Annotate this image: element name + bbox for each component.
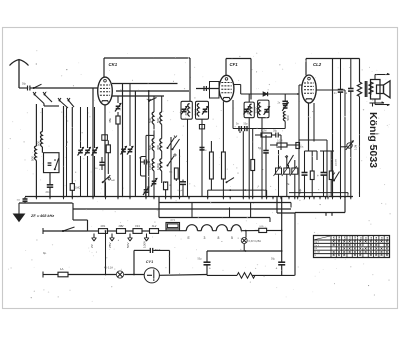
- wire switch link: [44, 101, 60, 107]
- wire route v7: [344, 197, 346, 213]
- filter bottom wire: [207, 274, 295, 276]
- capacitor 5n row2: [236, 123, 241, 132]
- wire y140 link: [299, 140, 327, 142]
- capacitor 2n out: [334, 59, 343, 198]
- svg-text:Ik mA: Ik mA: [315, 251, 321, 254]
- det can loop: [258, 100, 269, 118]
- svg-text:500: 500: [286, 115, 290, 120]
- IF2 can loop: [244, 102, 254, 118]
- svg-text:+: +: [317, 174, 319, 178]
- wire CY1 to filter: [159, 274, 207, 277]
- svg-text:ZF = 468 kHz: ZF = 468 kHz: [30, 214, 54, 218]
- trimmer IF1: [151, 178, 157, 196]
- wire lamp to CY1: [124, 274, 144, 276]
- svg-text:50µ: 50µ: [298, 189, 302, 194]
- svg-text:Ug V: Ug V: [315, 241, 320, 243]
- svg-text:U95: U95: [260, 226, 265, 228]
- wire L1 to bus: [35, 161, 37, 197]
- svg-text:50µ: 50µ: [258, 147, 263, 150]
- wire sw drop x179: [179, 149, 181, 196]
- fuse 1A: [58, 267, 68, 277]
- band switch S1a: [33, 92, 52, 104]
- wire to coil L1: [35, 104, 37, 146]
- wire CL2 pin a: [308, 103, 310, 151]
- wire S1b drop: [63, 106, 65, 197]
- wire route v8: [294, 213, 296, 275]
- osc trimmer 2: [202, 106, 208, 114]
- wire drop x148: [148, 91, 150, 197]
- IF2 trimmer: [244, 106, 250, 114]
- wire CL2 top: [306, 59, 360, 76]
- wire loop to winding: [198, 230, 202, 232]
- wire into CF1 grid: [196, 88, 219, 90]
- osc can loop 1: [181, 101, 192, 119]
- IF1 coil a1 500: [148, 112, 154, 124]
- wire L2 top: [42, 102, 52, 132]
- svg-text:300: 300: [156, 145, 160, 150]
- svg-text:CB2: CB2: [119, 225, 124, 228]
- wire route v3: [250, 203, 252, 218]
- label CY1: [146, 260, 153, 264]
- wire C-ant to band switch: [30, 84, 42, 89]
- svg-text:0,2M: 0,2M: [277, 140, 282, 143]
- wire det bottom: [261, 118, 263, 197]
- resistor 45k: [108, 116, 120, 124]
- svg-text:4V 0,1A: 4V 0,1A: [104, 267, 113, 270]
- coil L2 500: [37, 132, 43, 148]
- ground bus wire: [19, 202, 73, 204]
- resistor det: [164, 182, 172, 197]
- bus wire (chassis): [25, 196, 353, 199]
- wire CY1 loop top b: [153, 250, 169, 273]
- wire winding to VDR: [241, 230, 258, 232]
- wire x171: [170, 137, 172, 197]
- svg-text:6,3V 0,25A: 6,3V 0,25A: [249, 240, 262, 243]
- trimmer capacitor T2: [85, 107, 91, 197]
- det coil 2000: [255, 103, 261, 115]
- wire CL2 pin b: [313, 103, 315, 140]
- diode D1: [263, 92, 299, 96]
- svg-text:+: +: [276, 267, 278, 271]
- svg-text:50µ: 50µ: [198, 258, 203, 261]
- svg-text:CL2: CL2: [152, 225, 157, 228]
- capacitor C-ant 50p: [22, 83, 30, 91]
- speaker lead top: [375, 73, 390, 79]
- svg-text:10n: 10n: [17, 200, 21, 202]
- tube CK1: [98, 77, 113, 105]
- wire route h5: [295, 213, 345, 216]
- trimmer capacitor T3: [92, 107, 98, 197]
- svg-text:500: 500: [148, 145, 152, 150]
- label min max: [331, 158, 338, 166]
- wire grid CK1: [36, 87, 98, 89]
- wire x332: [332, 59, 334, 198]
- osc can loop 2: [196, 101, 209, 119]
- capacitor 50p out: [345, 59, 354, 198]
- electrolytic 50uF b: [317, 151, 327, 197]
- svg-text:50: 50: [205, 150, 208, 152]
- svg-text:SA1: SA1: [111, 179, 116, 182]
- wire IF2 top: [248, 94, 250, 102]
- trimmer x123: [121, 146, 127, 154]
- wire route h4: [159, 217, 270, 219]
- wire route h3: [277, 212, 295, 214]
- wire L2 bottom: [41, 147, 43, 153]
- capacitor 50n CY1: [150, 248, 161, 253]
- wire Ta drop: [288, 165, 290, 168]
- resistor 0.2M v: [270, 140, 299, 148]
- ballast CY1 box: [166, 220, 180, 231]
- wire y135 to x281: [280, 135, 282, 150]
- coil L1 500: [31, 146, 37, 161]
- svg-text:5k: 5k: [345, 92, 348, 95]
- wire band unit to C 20n: [49, 173, 51, 185]
- svg-text:6µ·: 6µ·: [43, 251, 47, 255]
- filter cap left 50uF: [198, 251, 212, 275]
- label CL2: [313, 62, 322, 67]
- svg-text:Ua V: Ua V: [315, 245, 320, 247]
- switch contacts IF1: [167, 136, 180, 151]
- wire diode feed: [241, 85, 263, 95]
- wire CK1 lower pin: [104, 105, 106, 197]
- wire CY1 loop top: [134, 249, 150, 251]
- speaker frame: [371, 80, 384, 100]
- wire CK1 right y96: [112, 95, 164, 97]
- svg-text:3: 3: [204, 236, 206, 240]
- switch above IF1: [148, 96, 157, 106]
- electrolytic 50uF a: [298, 151, 308, 197]
- capacitor 20nF: [46, 185, 54, 194]
- loop left of IF1: [141, 157, 147, 187]
- ground symbol: [14, 203, 25, 222]
- capacitor 2n det: [278, 94, 289, 105]
- tube data table: [314, 235, 390, 258]
- label 6V: [43, 251, 47, 255]
- wire x345: [344, 90, 346, 197]
- svg-text:30µ: 30µ: [273, 130, 278, 133]
- svg-text:5n: 5n: [236, 123, 239, 126]
- shield box CF1: [210, 82, 220, 99]
- test arrow 1: [90, 234, 96, 249]
- mains terminal upper: [42, 228, 44, 234]
- resistor cathode CK1: [102, 135, 108, 141]
- wire route v6: [290, 203, 292, 208]
- wire y130 row: [233, 128, 285, 130]
- resistor Rb: [222, 102, 226, 197]
- wire fuse to lamp: [68, 274, 116, 276]
- svg-text:50p: 50p: [22, 83, 27, 86]
- switch Ta: [285, 155, 294, 186]
- svg-text:50: 50: [95, 168, 98, 170]
- svg-text:S: S: [315, 255, 317, 257]
- wire heater drop: [105, 230, 107, 274]
- wire route v4: [269, 218, 271, 223]
- resistor osc2: [199, 125, 204, 129]
- heater chain resistors: [88, 225, 159, 234]
- resistor 60k: [296, 143, 305, 149]
- wire CL2 right y90: [316, 89, 345, 91]
- wire S1b drop 2: [66, 108, 68, 197]
- fuse loop: [186, 225, 197, 240]
- wire IF2 bottom: [248, 118, 250, 197]
- resistor 0.2M h: [261, 130, 272, 138]
- wire det top: [261, 94, 263, 100]
- resistor 50k: [169, 168, 178, 179]
- wire 5n drop: [145, 165, 147, 198]
- svg-text:45k: 45k: [108, 118, 112, 123]
- svg-text:mit.15V: mit.15V: [334, 158, 337, 166]
- svg-text:+: +: [298, 174, 300, 178]
- wave band unit box: [44, 153, 60, 173]
- wire y91: [116, 90, 189, 92]
- switch Ta2: [226, 178, 235, 191]
- svg-text:0,1M: 0,1M: [356, 145, 358, 150]
- scan speckle: [8, 50, 391, 302]
- svg-text:CK1: CK1: [109, 62, 118, 67]
- svg-text:E: E: [188, 236, 191, 240]
- svg-text:25V: 25V: [108, 242, 112, 248]
- label 1M: [75, 186, 81, 190]
- wire route v-left: [158, 197, 160, 218]
- capacitor 50p row2: [244, 123, 249, 132]
- svg-text:0,1µF: 0,1µF: [178, 190, 184, 192]
- svg-text:CF1: CF1: [135, 225, 140, 228]
- wire y146 link: [341, 146, 347, 148]
- svg-text:500: 500: [148, 118, 152, 123]
- resistor right b: [329, 151, 333, 197]
- svg-text:100V: 100V: [142, 240, 146, 248]
- capacitor osc2: [200, 148, 208, 153]
- AVC return wire: [208, 189, 267, 196]
- smoothing resistor: [237, 273, 255, 279]
- switch SA1: [102, 175, 116, 196]
- IF1 coil a3 1000: [148, 159, 154, 171]
- test arrow 4: [142, 234, 148, 249]
- capacitor 5n: [139, 157, 150, 165]
- switch contacts IF1 lower: [167, 154, 177, 167]
- wire to fuse loop: [159, 230, 187, 232]
- capacitor 10n to ground: [17, 197, 28, 203]
- IF2 coil 2000: [246, 104, 252, 116]
- svg-text:2n: 2n: [278, 102, 281, 105]
- wire 1M to bus: [71, 190, 73, 196]
- wire CK1 cathode: [92, 88, 94, 197]
- loop1 top: [305, 151, 318, 160]
- loop2 top: [320, 150, 334, 152]
- osc coil 1: [184, 104, 190, 117]
- IF1 line b: [161, 96, 163, 183]
- svg-text:CY1: CY1: [170, 220, 175, 222]
- wire osc2 down: [201, 119, 203, 196]
- potentiometer feedback: [346, 141, 358, 150]
- capacitor 50u mid: [258, 135, 269, 197]
- wire CY1 loop left: [133, 250, 135, 274]
- wire CK1 right y83: [112, 83, 178, 85]
- wire antenna to C-ant: [19, 87, 27, 89]
- wire route v1: [191, 203, 193, 218]
- wire route h2: [73, 208, 292, 210]
- trimmer at bus left: [143, 186, 149, 197]
- speaker lead bottom: [375, 99, 390, 106]
- det chain coil 500: [283, 111, 290, 121]
- trimmer x130: [127, 84, 133, 198]
- det chain trimmer: [282, 102, 288, 110]
- svg-text:2n: 2n: [334, 92, 337, 95]
- wire CF1 anode top: [226, 59, 251, 100]
- resistor Rk CL2: [310, 151, 314, 197]
- label CF1: [230, 62, 239, 67]
- svg-text:1000: 1000: [156, 163, 160, 170]
- transformer primary winding: [201, 225, 241, 231]
- VDR: [259, 226, 267, 233]
- svg-text:+: +: [209, 267, 211, 271]
- label CK1: [109, 62, 118, 67]
- tube CF1: [219, 75, 234, 101]
- wire CF1 pin3: [232, 100, 234, 129]
- svg-text:1MΩ: 1MΩ: [75, 186, 81, 190]
- svg-text:1000: 1000: [148, 163, 152, 170]
- potentiometer P1: [274, 150, 282, 197]
- svg-text:CF1: CF1: [230, 62, 239, 67]
- capacitor 50 CK1: [95, 157, 105, 170]
- IF1 line a: [153, 96, 155, 190]
- wire det chain down: [284, 121, 286, 128]
- filter top wire: [207, 250, 283, 252]
- band switch S1b: [58, 98, 74, 108]
- wire lamp6 top: [245, 231, 247, 238]
- svg-text:500: 500: [31, 156, 35, 161]
- wire CK1 anode to top: [104, 58, 190, 101]
- IF1 coil b1 500: [156, 112, 162, 124]
- IF1 coil b3 1000: [156, 159, 162, 171]
- transformer T-out winding: [369, 80, 373, 98]
- IF1 coil a2 500: [148, 139, 154, 152]
- svg-text:1A: 1A: [60, 267, 64, 271]
- resistor output: [357, 59, 361, 198]
- wire sw to R 1M: [71, 107, 73, 184]
- antenna: [10, 60, 29, 89]
- svg-text:2000: 2000: [193, 108, 197, 115]
- svg-text:50µ: 50µ: [271, 258, 276, 261]
- mains switch: [43, 227, 88, 232]
- svg-text:8: 8: [218, 236, 220, 240]
- wire x327 drop: [326, 140, 328, 197]
- tube CL2: [302, 75, 316, 103]
- svg-text:50V: 50V: [126, 242, 130, 248]
- wire 45k to bus: [117, 124, 119, 197]
- det trimmer: [264, 106, 270, 114]
- wire VDR to rail: [267, 230, 283, 232]
- svg-text:500: 500: [37, 141, 41, 146]
- svg-text:50p: 50p: [244, 123, 249, 126]
- capacitor 30u: [272, 130, 282, 138]
- potentiometer P2: [282, 155, 290, 197]
- winding taps labels: [204, 236, 234, 240]
- wire drop x135: [134, 91, 136, 197]
- wire to fuse: [43, 274, 58, 276]
- test arrow 3: [126, 234, 132, 249]
- wire osc1 to bus: [187, 119, 189, 196]
- wire y85 right: [234, 84, 241, 86]
- wire route v2: [229, 208, 231, 218]
- svg-text:2V: 2V: [90, 243, 94, 248]
- svg-text:500: 500: [156, 118, 160, 123]
- pilot lamp 6.3V: [241, 231, 261, 251]
- svg-text:König 5033: König 5033: [367, 112, 379, 168]
- capacitor at CF1 grid: [204, 86, 206, 91]
- switch tone: [332, 172, 340, 182]
- svg-text:0,2M: 0,2M: [261, 130, 266, 133]
- svg-text:5: 5: [231, 236, 233, 240]
- label Koenig 5033: [367, 112, 379, 168]
- wire y135: [255, 134, 261, 136]
- resistor Ra: [210, 141, 214, 190]
- wire y135 link IF1: [146, 135, 154, 156]
- test arrow 2: [108, 234, 114, 249]
- wire CL2 grid left: [299, 85, 302, 197]
- mains terminal lower: [42, 272, 44, 278]
- wire route h1: [159, 202, 291, 204]
- IF1 coil b2 300: [156, 139, 162, 152]
- wire link above bus right: [289, 193, 348, 197]
- wire mains riser: [73, 203, 88, 231]
- wire 20n to bus: [49, 187, 51, 196]
- resistor below CK1: [106, 140, 110, 174]
- osc coil 2: [193, 104, 199, 117]
- trimmer at CK1: [115, 96, 121, 116]
- svg-text:60k: 60k: [300, 147, 304, 149]
- capacitor 0.1: [176, 179, 186, 197]
- rectifier CY1: [144, 268, 159, 283]
- osc trimmer 1: [181, 106, 187, 114]
- tap wire with arrow: [370, 102, 385, 107]
- trimmer capacitor T1: [78, 107, 84, 197]
- label ZF: [30, 214, 54, 218]
- resistor 1M: [70, 184, 74, 191]
- svg-text:CY1: CY1: [146, 260, 153, 264]
- transformer T-out core: [365, 81, 367, 97]
- capacitor in band unit: [48, 163, 52, 165]
- svg-text:2000: 2000: [255, 106, 259, 113]
- resistor osc: [251, 129, 255, 197]
- potentiometer P3: [290, 160, 298, 197]
- dial lamp 4V: [104, 267, 124, 279]
- wire x239 drop: [240, 131, 243, 196]
- speaker cone: [384, 81, 391, 98]
- wire route v5: [276, 197, 278, 213]
- wire drop x122: [122, 84, 124, 198]
- filter cap right 50uF: [271, 197, 285, 275]
- switch in band unit: [54, 158, 59, 170]
- svg-text:CL2: CL2: [313, 62, 322, 67]
